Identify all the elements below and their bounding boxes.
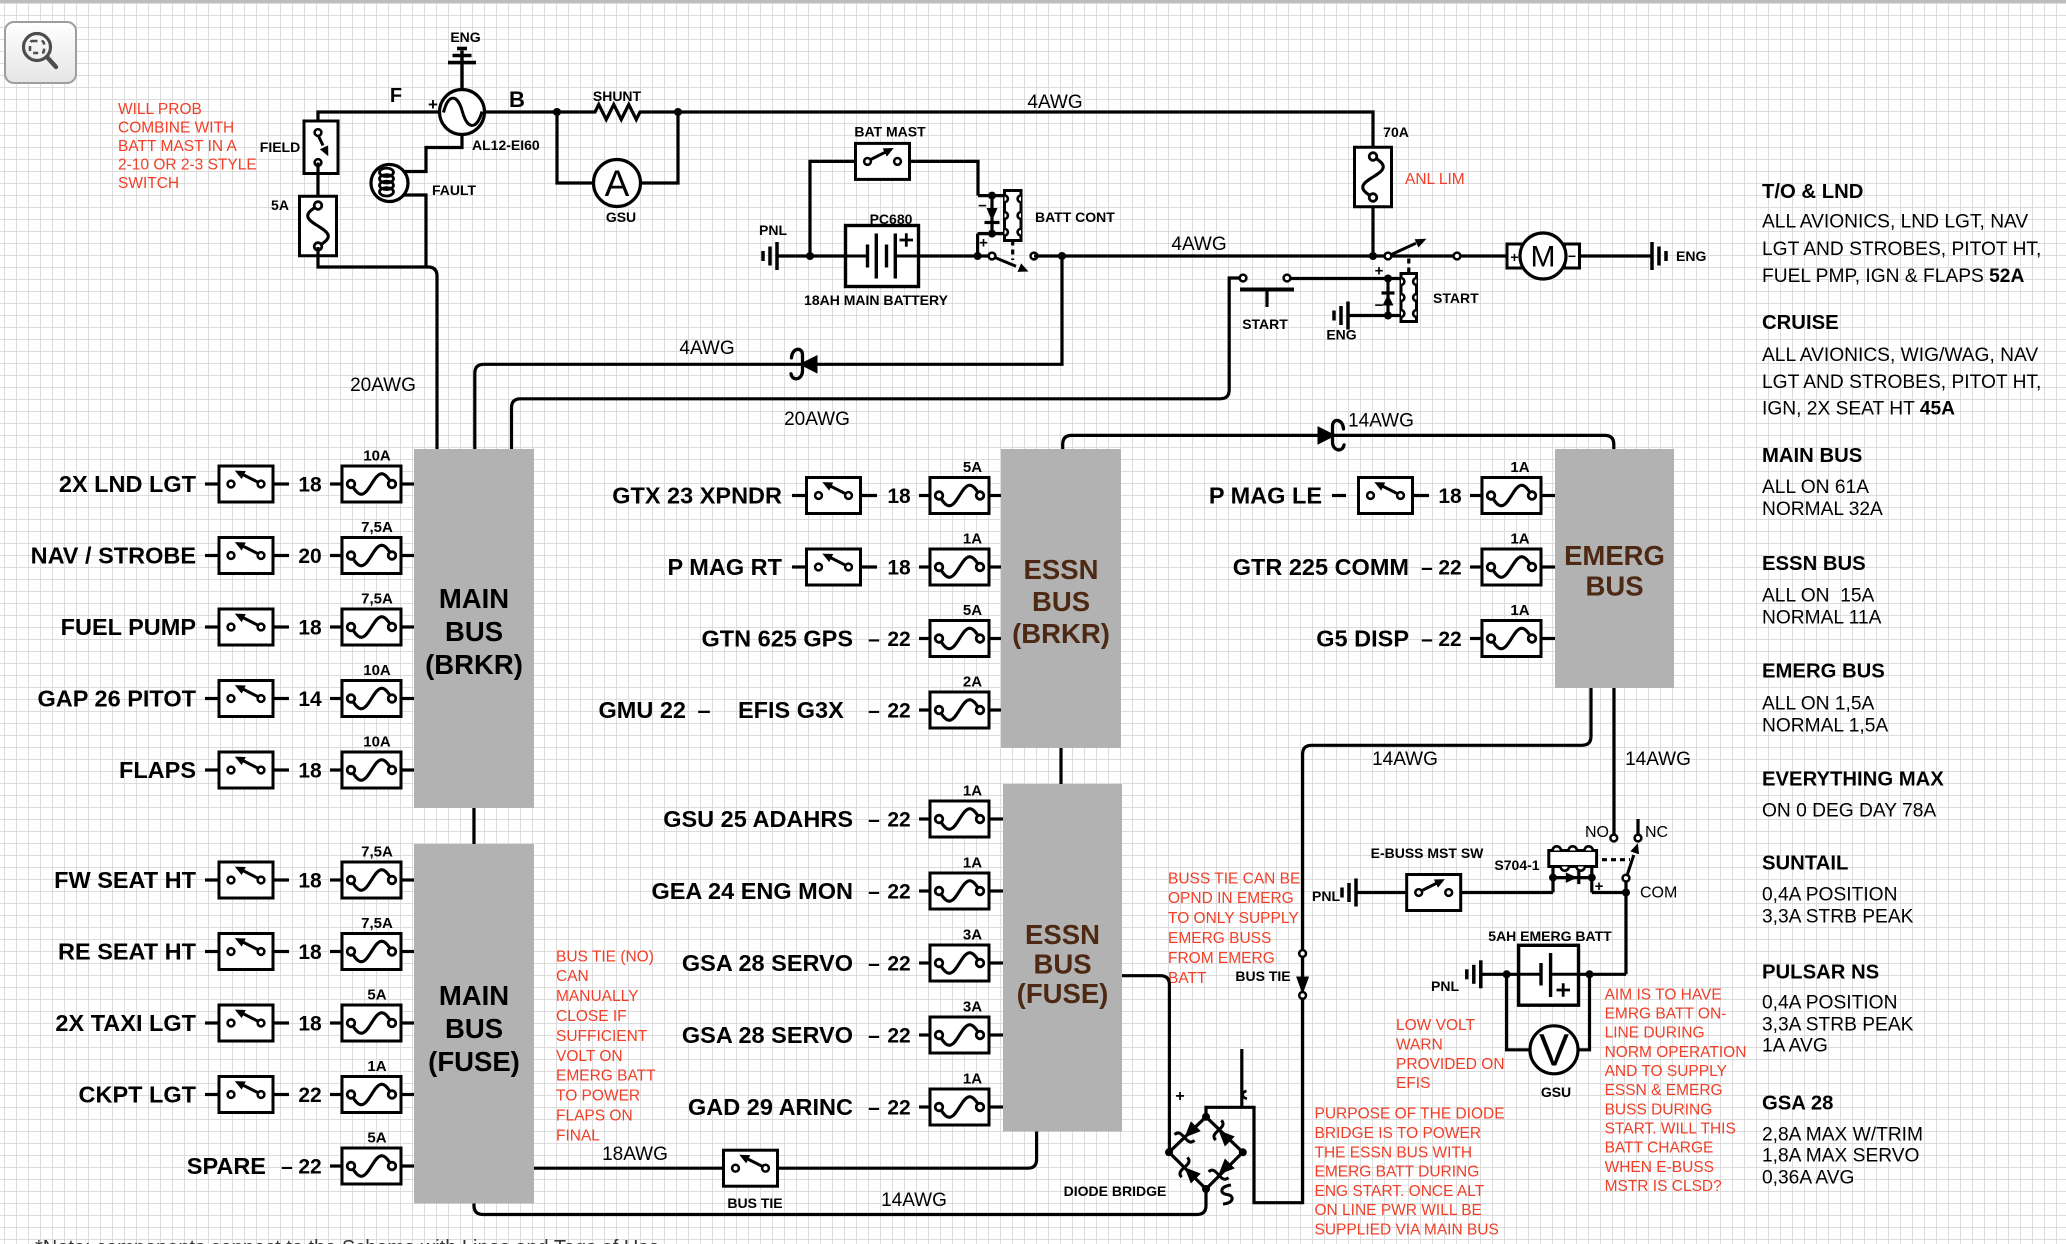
fuse 1A P MAG LE: [1482, 459, 1541, 514]
switch 2X LND LGT: [219, 466, 273, 502]
svg-text:5AH EMERG BATT: 5AH EMERG BATT: [1488, 928, 1612, 944]
wire: [330, 878, 342, 881]
circuit row FW SEAT HT: [54, 867, 219, 893]
wire to bus: [401, 697, 414, 700]
svg-text:PNL: PNL: [1312, 888, 1340, 904]
svg-text:CRUISE: CRUISE: [1762, 312, 1839, 334]
wire pivot to COM: [1624, 882, 1627, 893]
wire: [919, 817, 930, 820]
svg-text:–: –: [281, 1156, 293, 1179]
svg-text:PNL: PNL: [1431, 978, 1459, 994]
svg-text:18: 18: [887, 485, 911, 508]
svg-text:2X LND LGT: 2X LND LGT: [59, 471, 197, 497]
switch FW SEAT HT: [219, 862, 273, 898]
disconnect BUS TIE terminals: [1298, 950, 1308, 999]
svg-text:DIODE BRIDGE: DIODE BRIDGE: [1064, 1183, 1167, 1199]
svg-text:FAULT: FAULT: [432, 182, 477, 198]
wire FIELD to 5A fuse: [316, 163, 319, 207]
svg-text:–: –: [868, 809, 880, 832]
svg-text:LGT AND STROBES, PITOT HT,: LGT AND STROBES, PITOT HT,: [1762, 239, 2041, 260]
svg-text:T/O & LND: T/O & LND: [1762, 181, 1863, 203]
svg-text:OPND IN EMERG: OPND IN EMERG: [1168, 890, 1294, 907]
junction contactor plus: [974, 252, 982, 260]
svg-text:FLAPS ON: FLAPS ON: [556, 1108, 633, 1125]
circuit row NAV / STROBE: [31, 543, 219, 569]
svg-text:TO POWER: TO POWER: [556, 1088, 640, 1105]
svg-text:+: +: [1175, 1088, 1184, 1105]
svg-text:1A: 1A: [963, 855, 982, 872]
wire bus tie line to diode bridge: [1206, 999, 1303, 1203]
lamp FAULT: [371, 165, 408, 202]
wire COM down to battery: [1624, 893, 1627, 975]
bus EMERG BUS: [1555, 449, 1674, 688]
circuit row FUEL PUMP: [61, 614, 219, 640]
svg-text:18: 18: [298, 474, 322, 497]
wire to bus: [401, 878, 414, 881]
wire to bus: [401, 482, 414, 485]
top border strip: [0, 0, 2066, 3]
relay contact NO NC COM: [1610, 819, 1641, 881]
svg-text:5A: 5A: [963, 459, 982, 476]
svg-text:V: V: [1539, 1025, 1569, 1076]
fuse 5A GTX 23 XPNDR: [930, 459, 989, 514]
svg-text:7,5A: 7,5A: [361, 519, 393, 536]
svg-text:18AH MAIN BATTERY: 18AH MAIN BATTERY: [804, 292, 949, 308]
annotation will prob combine: [118, 101, 257, 192]
svg-text:EMRG BATT ON-: EMRG BATT ON-: [1605, 1006, 1727, 1023]
circuit row GSA 28 SERVO: [682, 1022, 911, 1048]
wire to bus: [989, 565, 1001, 568]
annotation bus tie no can manually close: [556, 948, 656, 1144]
ground PNL ebuss: [1342, 879, 1356, 907]
wire to bus: [989, 1033, 1003, 1036]
svg-text:NORMAL 1,5A: NORMAL 1,5A: [1762, 716, 1888, 737]
junction emerg batt left: [1503, 970, 1511, 978]
wire to bus: [1541, 494, 1555, 497]
svg-text:M: M: [1531, 241, 1556, 274]
svg-text:4AWG: 4AWG: [679, 338, 734, 359]
battery 5AH EMERG BATT: [1519, 945, 1579, 1005]
svg-text:WHEN E-BUSS: WHEN E-BUSS: [1605, 1159, 1714, 1176]
junction bridge right: [1239, 1148, 1247, 1156]
svg-text:5A: 5A: [963, 602, 982, 619]
wire: [273, 768, 289, 771]
wire: [273, 697, 289, 700]
svg-text:WILL PROB: WILL PROB: [118, 101, 202, 118]
svg-text:18: 18: [1438, 485, 1462, 508]
switch GTX 23 XPNDR: [807, 478, 861, 514]
resistor SHUNT: [557, 105, 678, 120]
fusible link arrow: [1318, 420, 1345, 449]
svg-text:MAIN BUS: MAIN BUS: [1762, 445, 1862, 467]
svg-text:S704-1: S704-1: [1494, 857, 1539, 873]
svg-text:14: 14: [298, 688, 322, 711]
svg-text:2-10 OR 2-3 STYLE: 2-10 OR 2-3 STYLE: [118, 156, 257, 173]
wire alternator to FAULT lamp: [403, 135, 462, 172]
circuit row GMU 22 - EFIS G3X: [599, 697, 911, 723]
svg-text:7,5A: 7,5A: [361, 915, 393, 932]
wire: [273, 1093, 289, 1096]
wire ESSN FUSE to bridge: [1122, 976, 1169, 1153]
wire to bus: [401, 1021, 414, 1024]
fuse 1A GSU 25 ADAHRS: [930, 783, 989, 838]
bus MAIN BUS (BRKR): [414, 449, 534, 808]
svg-text:F: F: [390, 85, 402, 107]
svg-text:ENG START. ONCE ALT: ENG START. ONCE ALT: [1315, 1183, 1485, 1200]
svg-text:LOW VOLT: LOW VOLT: [1396, 1017, 1475, 1034]
svg-text:18: 18: [298, 870, 322, 893]
svg-text:IGN, 2X SEAT HT 45A: IGN, 2X SEAT HT 45A: [1762, 399, 1955, 420]
svg-text:MAIN: MAIN: [439, 583, 509, 614]
switch BAT MAST: [856, 143, 910, 179]
svg-text:22: 22: [887, 809, 910, 832]
svg-text:–: –: [697, 697, 710, 723]
svg-text:A: A: [605, 163, 630, 204]
annotation buss tie can be opnd: [1168, 870, 1300, 987]
svg-text:BUS TIE (NO): BUS TIE (NO): [556, 948, 654, 965]
wire: [330, 697, 342, 700]
wire battery to contactor switch: [919, 254, 993, 257]
fuse 70A ANL LIM: [1355, 147, 1392, 207]
svg-text:–: –: [868, 700, 880, 723]
wire: [273, 482, 289, 485]
svg-text:START. WILL THIS: START. WILL THIS: [1605, 1121, 1736, 1138]
circuit row GEA 24 ENG MON: [651, 878, 910, 904]
circuit row P MAG RT: [668, 554, 807, 580]
fuse 5A SPARE: [342, 1130, 401, 1185]
svg-text:GSA 28 SERVO: GSA 28 SERVO: [682, 950, 853, 976]
contact BATT CONT: [996, 258, 1029, 272]
svg-text:18AWG: 18AWG: [602, 1144, 668, 1165]
svg-text:GMU 22: GMU 22: [599, 697, 687, 723]
svg-text:1A: 1A: [1510, 531, 1529, 548]
svg-text:+: +: [1510, 249, 1518, 265]
wire to bus: [401, 625, 414, 628]
svg-text:FUEL PMP, IGN & FLAPS 52A: FUEL PMP, IGN & FLAPS 52A: [1762, 266, 2024, 287]
switch FIELD: [304, 121, 338, 174]
wire to ammeter left: [557, 112, 594, 183]
svg-text:–: –: [868, 628, 880, 651]
switch E-BUSS MST SW: [1407, 875, 1461, 911]
ground PNL emerg batt: [1467, 960, 1481, 988]
wire PNL to emerg batt: [1481, 973, 1519, 976]
wire: [919, 494, 930, 497]
svg-text:10A: 10A: [363, 734, 391, 751]
svg-text:EMERG BATT: EMERG BATT: [556, 1068, 656, 1085]
svg-text:GSA 28: GSA 28: [1762, 1093, 1833, 1115]
switch BUS TIE: [724, 1150, 778, 1186]
wire 70A fuse to main line: [1371, 207, 1374, 257]
wire: [330, 554, 342, 557]
wire diode branch: [990, 196, 993, 234]
fuse 7,5A NAV / STROBE: [342, 519, 401, 574]
svg-text:–: –: [868, 953, 880, 976]
svg-text:BUS: BUS: [445, 1013, 503, 1044]
wire to bus: [989, 817, 1003, 820]
svg-text:70A: 70A: [1383, 124, 1409, 140]
svg-text:MSTR IS CLSD?: MSTR IS CLSD?: [1605, 1178, 1723, 1195]
svg-text:1A: 1A: [963, 783, 982, 800]
wire: [919, 889, 930, 892]
wire contactor top rail: [978, 194, 1005, 197]
svg-text:(FUSE): (FUSE): [1017, 978, 1109, 1009]
svg-text:22: 22: [887, 881, 910, 904]
coil BATT CONT coil: [1005, 191, 1022, 241]
wire: [1470, 565, 1482, 568]
fuse 5A FIELD: [300, 196, 337, 256]
diode bridge upper-right: [1214, 1120, 1235, 1146]
svg-text:EMERG BATT DURING: EMERG BATT DURING: [1315, 1164, 1480, 1181]
junction start diode top: [1384, 275, 1392, 283]
wire: [919, 1105, 930, 1108]
wire: [919, 708, 930, 711]
svg-text:SPARE: SPARE: [187, 1153, 266, 1179]
svg-text:GSA 28 SERVO: GSA 28 SERVO: [682, 1022, 853, 1048]
AC tick mark: [1243, 1091, 1247, 1099]
fuse 1A G5 DISP: [1482, 602, 1541, 657]
motor M starter: [1507, 233, 1580, 279]
svg-text:10A: 10A: [363, 448, 391, 465]
wire to bus: [401, 554, 414, 557]
wire relay to COM: [1592, 891, 1626, 894]
svg-text:NC: NC: [1645, 824, 1668, 841]
junction bridge bottom: [1202, 1185, 1210, 1193]
svg-text:MANUALLY: MANUALLY: [556, 988, 638, 1005]
contact starter switch: [1392, 239, 1427, 255]
svg-text:EMERG: EMERG: [1564, 540, 1665, 571]
circuit row GSA 28 SERVO: [682, 950, 911, 976]
svg-text:WARN: WARN: [1396, 1037, 1443, 1054]
wire bridge bottom to 14AWG main: [474, 1189, 1206, 1215]
svg-text:3A: 3A: [963, 927, 982, 944]
wire: [330, 1164, 342, 1167]
ground ENG alternator top: [448, 49, 476, 90]
svg-text:22: 22: [887, 1097, 910, 1120]
wire ESSN BRKR to FUSE: [1059, 748, 1062, 784]
wire: [330, 625, 342, 628]
svg-text:RE SEAT HT: RE SEAT HT: [58, 939, 197, 965]
circuit row P MAG LE: [1209, 483, 1346, 509]
svg-text:SHUNT: SHUNT: [593, 88, 642, 104]
svg-text:LGT AND STROBES, PITOT HT,: LGT AND STROBES, PITOT HT,: [1762, 372, 2041, 393]
svg-text:NORMAL 11A: NORMAL 11A: [1762, 608, 1882, 629]
svg-text:(BRKR): (BRKR): [1012, 618, 1110, 649]
svg-text:GTX 23 XPNDR: GTX 23 XPNDR: [612, 483, 782, 509]
alternator U1 AL12-EI60: [440, 90, 485, 135]
svg-text:EMERG BUS: EMERG BUS: [1762, 661, 1885, 683]
wire to bus: [989, 708, 1001, 711]
svg-text:EFIS G3X: EFIS G3X: [738, 697, 844, 723]
svg-text:1A: 1A: [1510, 459, 1529, 476]
fuse 1A GAD 29 ARINC: [930, 1071, 989, 1126]
diode bridge lower-left: [1180, 1157, 1201, 1183]
wire start button to contactor coil: [1291, 277, 1402, 280]
wire to bus: [989, 494, 1001, 497]
svg-text:ALL ON 15A: ALL ON 15A: [1762, 586, 1875, 607]
svg-text:GEA 24 ENG MON: GEA 24 ENG MON: [651, 878, 853, 904]
svg-text:(FUSE): (FUSE): [428, 1046, 520, 1077]
svg-text:FROM EMERG: FROM EMERG: [1168, 950, 1275, 967]
svg-text:BUS: BUS: [1033, 949, 1091, 980]
fuse 7,5A RE SEAT HT: [342, 915, 401, 970]
wire to bus: [989, 961, 1003, 964]
svg-text:22: 22: [887, 1025, 910, 1048]
svg-text:ENG: ENG: [1326, 327, 1356, 343]
wire MAIN BRKR to FUSE: [472, 808, 475, 844]
dashed coil to contact arm: [1602, 858, 1630, 861]
junction diode bottom: [988, 230, 996, 238]
svg-text:BATT: BATT: [1168, 970, 1207, 987]
svg-text:0,4A POSITION: 0,4A POSITION: [1762, 993, 1897, 1014]
wire to bus: [1541, 637, 1555, 640]
diode bridge: [1169, 1117, 1243, 1189]
bus MAIN BUS (FUSE): [414, 844, 534, 1204]
svg-text:22: 22: [298, 1084, 321, 1107]
svg-text:EFIS: EFIS: [1396, 1075, 1430, 1092]
svg-text:BUS: BUS: [1585, 571, 1643, 602]
notes column: [1762, 181, 2041, 1189]
svg-text:0,36A AVG: 0,36A AVG: [1762, 1168, 1854, 1189]
wire PNL to battery: [777, 254, 846, 257]
svg-text:ESSN BUS: ESSN BUS: [1762, 553, 1866, 575]
svg-text:PURPOSE OF THE DIODE: PURPOSE OF THE DIODE: [1315, 1106, 1505, 1123]
svg-text:18: 18: [298, 941, 322, 964]
fuse 5A 2X TAXI LGT: [342, 987, 401, 1042]
wire bridge AC stub: [1240, 1049, 1243, 1107]
svg-text:1A: 1A: [1510, 602, 1529, 619]
bus ESSN BUS (FUSE): [1003, 784, 1122, 1132]
svg-text:GTN 625 GPS: GTN 625 GPS: [702, 626, 854, 652]
wire to bus: [989, 637, 1001, 640]
fuse 10A GAP 26 PITOT: [342, 662, 401, 717]
svg-text:EMERG BUSS: EMERG BUSS: [1168, 930, 1271, 947]
svg-text:−: −: [1375, 297, 1384, 314]
svg-text:7,5A: 7,5A: [361, 844, 393, 861]
svg-text:+: +: [1375, 263, 1384, 280]
svg-text:THE ESSN BUS WITH: THE ESSN BUS WITH: [1315, 1144, 1473, 1161]
svg-text:7,5A: 7,5A: [361, 591, 393, 608]
svg-text:ALL ON 61A: ALL ON 61A: [1762, 477, 1869, 498]
svg-text:BUS TIE: BUS TIE: [727, 1195, 782, 1211]
zoom button: [5, 22, 76, 83]
svg-text:18: 18: [298, 760, 322, 783]
svg-text:22: 22: [887, 953, 910, 976]
wire to bus: [1541, 565, 1555, 568]
svg-text:SUFFICIENT: SUFFICIENT: [556, 1028, 648, 1045]
svg-text:10A: 10A: [363, 662, 391, 679]
wire: [330, 1021, 342, 1024]
wire: [1470, 494, 1482, 497]
svg-text:+: +: [979, 235, 988, 252]
wire: [330, 1093, 342, 1096]
svg-text:ENG: ENG: [1676, 248, 1706, 264]
fuse 3A GSA 28 SERVO: [930, 927, 989, 982]
svg-text:ALL AVIONICS, WIG/WAG, NAV: ALL AVIONICS, WIG/WAG, NAV: [1762, 345, 2038, 366]
fuse 1A P MAG RT: [930, 531, 989, 586]
svg-text:GSU 25 ADAHRS: GSU 25 ADAHRS: [663, 806, 853, 832]
annotation purpose of the diode bridge: [1315, 1106, 1505, 1239]
wire 4AWG loop to MAIN BUS: [475, 256, 1062, 449]
svg-text:14AWG: 14AWG: [881, 1190, 947, 1211]
fuse 10A FLAPS: [342, 734, 401, 789]
svg-text:FINAL: FINAL: [556, 1127, 600, 1144]
wire 18AWG main fuse to bus tie: [534, 1167, 724, 1170]
switch P MAG LE: [1359, 478, 1413, 514]
svg-text:MAIN: MAIN: [439, 980, 509, 1011]
svg-text:NO: NO: [1585, 824, 1609, 841]
junction bridge top: [1202, 1113, 1210, 1121]
svg-text:–: –: [868, 1097, 880, 1120]
wire to bus: [989, 1105, 1003, 1108]
meter A GSU: [594, 160, 641, 207]
svg-text:BUSS DURING: BUSS DURING: [1605, 1101, 1713, 1118]
circuit row CKPT LGT: [79, 1082, 220, 1108]
wire: [330, 482, 342, 485]
circuit row RE SEAT HT: [58, 939, 219, 965]
svg-text:5A: 5A: [271, 197, 289, 213]
svg-text:18: 18: [887, 557, 911, 580]
wire B to shunt: [485, 110, 558, 113]
switch 2X TAXI LGT: [219, 1005, 273, 1041]
junction shunt left: [553, 108, 561, 116]
svg-text:BATT CONT: BATT CONT: [1035, 209, 1115, 225]
svg-text:14AWG: 14AWG: [1372, 749, 1438, 770]
svg-text:GSU: GSU: [1541, 1084, 1571, 1100]
svg-text:BAT MAST: BAT MAST: [854, 124, 926, 140]
wire contactor bottom rail: [978, 232, 1005, 235]
AC squiggle mark: [1222, 1185, 1232, 1204]
svg-text:CLOSE IF: CLOSE IF: [556, 1008, 627, 1025]
svg-text:BUS TIE: BUS TIE: [1235, 968, 1290, 984]
svg-text:P MAG RT: P MAG RT: [668, 554, 783, 580]
wire: [860, 494, 877, 497]
junction bridge left: [1165, 1148, 1173, 1156]
svg-text:COM: COM: [1640, 885, 1677, 902]
svg-text:14AWG: 14AWG: [1348, 411, 1414, 432]
svg-text:FUEL PUMP: FUEL PUMP: [61, 614, 196, 640]
svg-text:CAN: CAN: [556, 968, 589, 985]
junction shunt right: [674, 108, 682, 116]
svg-text:20AWG: 20AWG: [784, 409, 850, 430]
wire main line 4AWG: [1034, 254, 1507, 257]
svg-text:START: START: [1433, 290, 1479, 306]
circuit row G5 DISP: [1316, 626, 1461, 652]
svg-text:18: 18: [298, 617, 322, 640]
fuse 7,5A FUEL PUMP: [342, 591, 401, 646]
switch FLAPS: [219, 752, 273, 788]
svg-text:2,8A MAX W/TRIM: 2,8A MAX W/TRIM: [1762, 1125, 1923, 1146]
svg-text:ALL ON 1,5A: ALL ON 1,5A: [1762, 694, 1875, 715]
wire to bus: [989, 889, 1003, 892]
junction relay right: [1588, 874, 1596, 882]
wire: [1412, 494, 1429, 497]
diode START flyback: [1382, 293, 1395, 306]
switch CKPT LGT: [219, 1077, 273, 1113]
wire: [330, 768, 342, 771]
relay S704-1: [1553, 867, 1592, 893]
wire EMERG bus to bus tie line 14AWG: [1303, 688, 1591, 950]
svg-text:1A: 1A: [367, 1058, 386, 1075]
ground PNL battery: [763, 242, 777, 270]
wire to bus: [401, 1093, 414, 1096]
wire 4AWG to 70A fuse: [678, 112, 1373, 151]
wire: [273, 950, 289, 953]
wire PNL to E-BUSS switch: [1356, 891, 1407, 894]
svg-text:3,3A STRB PEAK: 3,3A STRB PEAK: [1762, 1015, 1914, 1036]
svg-text:START: START: [1242, 316, 1288, 332]
svg-text:22: 22: [298, 1156, 321, 1179]
svg-text:(BRKR): (BRKR): [425, 649, 523, 680]
